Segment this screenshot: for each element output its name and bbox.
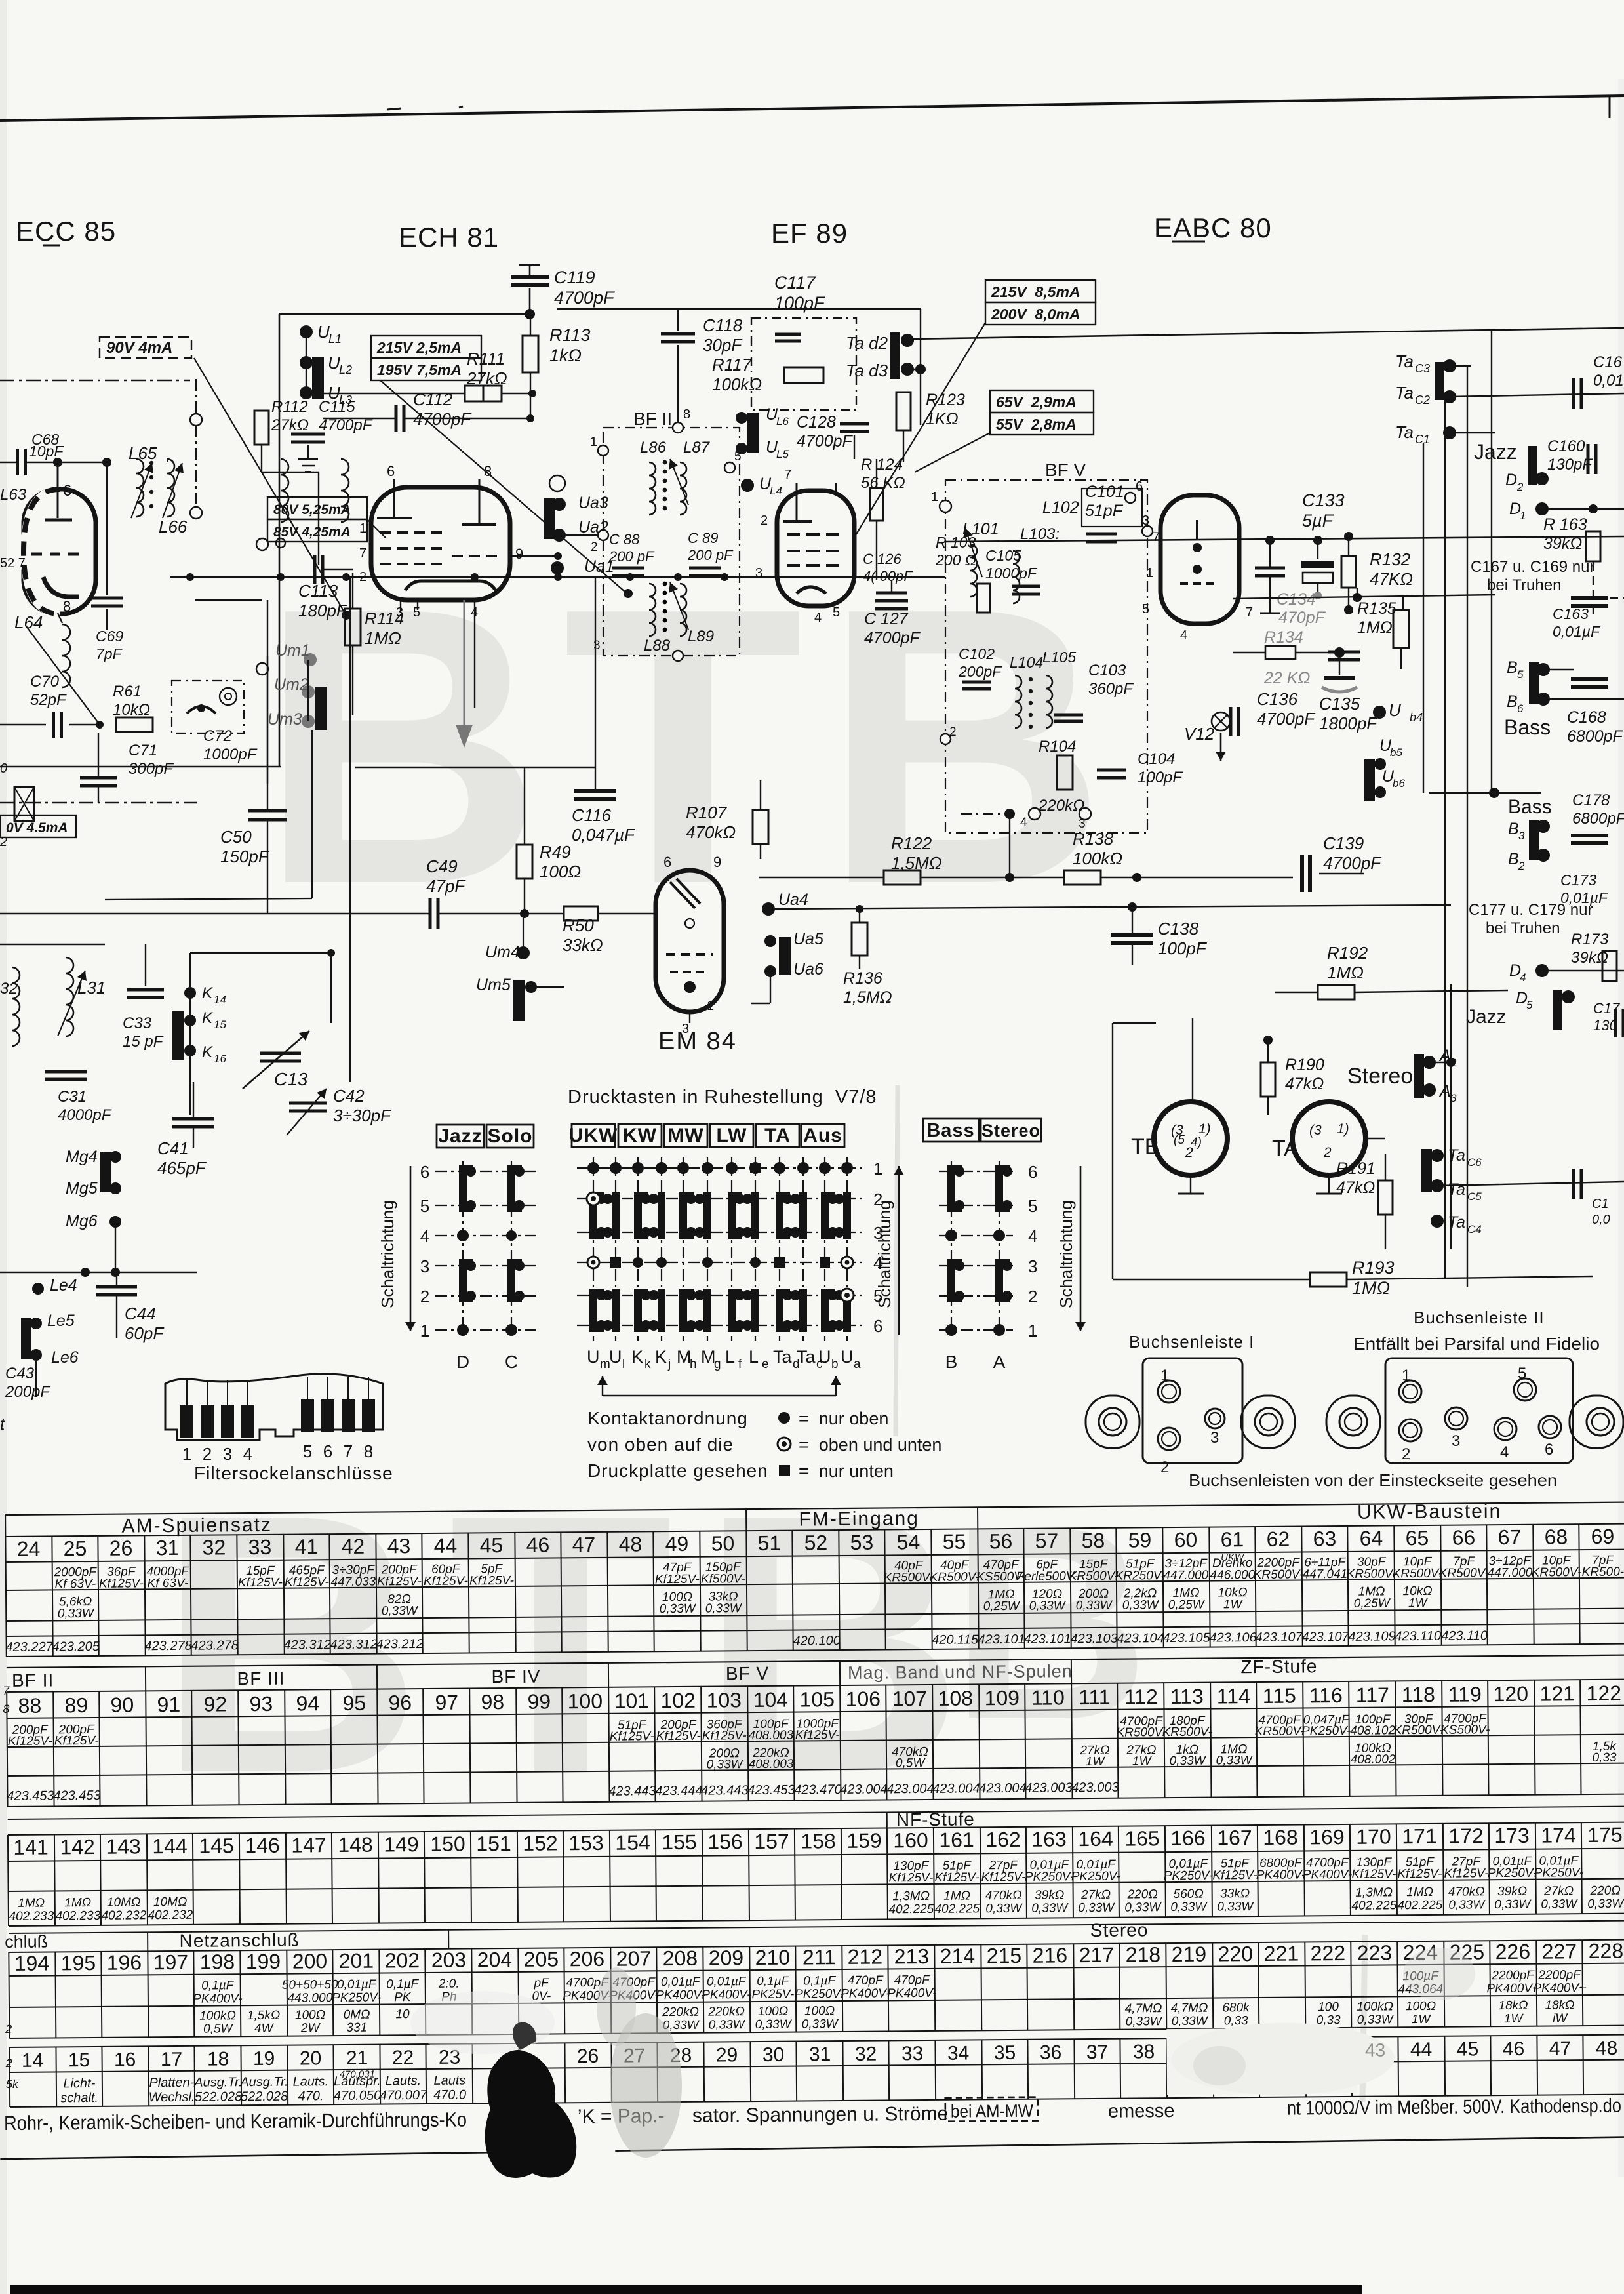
svg-text:0,33W: 0,33W	[1357, 2013, 1395, 2026]
svg-text:402.225: 402.225	[1351, 1899, 1396, 1913]
svg-text:PK250V-: PK250V-	[1025, 1870, 1075, 1884]
svg-text:Kf125V-: Kf125V-	[795, 1728, 840, 1742]
svg-text:0,33: 0,33	[1592, 1751, 1617, 1765]
svg-text:R50: R50	[563, 916, 594, 935]
svg-text:C 88: C 88	[609, 531, 640, 548]
svg-text:0,33W: 0,33W	[755, 2018, 793, 2032]
svg-text:g: g	[714, 1358, 721, 1371]
svg-text:208: 208	[663, 1946, 698, 1970]
svg-text:423.443: 423.443	[701, 1783, 748, 1798]
svg-text:680k: 680k	[1222, 2001, 1250, 2015]
svg-text:144: 144	[152, 1834, 188, 1858]
svg-text:220Ω: 220Ω	[1589, 1884, 1620, 1898]
svg-text:R190: R190	[1285, 1056, 1324, 1074]
svg-text:0,01µF: 0,01µF	[707, 1975, 747, 1988]
svg-text:470kΩ: 470kΩ	[686, 822, 736, 842]
svg-text:R136: R136	[843, 969, 882, 988]
svg-text:447.041: 447.041	[1302, 1567, 1347, 1582]
svg-text:470pF: 470pF	[1278, 609, 1326, 627]
svg-text:Solo: Solo	[488, 1125, 533, 1147]
svg-text:Kf125V-: Kf125V-	[1351, 1867, 1396, 1881]
svg-text:C2: C2	[1415, 393, 1430, 407]
svg-text:Um4: Um4	[485, 943, 520, 961]
svg-text:C139: C139	[1323, 834, 1364, 853]
svg-text:2: 2	[1518, 860, 1525, 872]
svg-text:217: 217	[1079, 1943, 1115, 1967]
svg-text:Netzanschluß: Netzanschluß	[179, 1929, 299, 1950]
svg-text:100Ω: 100Ω	[1406, 2000, 1436, 2013]
svg-text:6800pF: 6800pF	[1567, 727, 1624, 746]
svg-text:FM-Eingang: FM-Eingang	[799, 1508, 919, 1530]
svg-text:KS500V-: KS500V-	[1440, 1723, 1490, 1737]
svg-text:ZF-Stufe: ZF-Stufe	[1240, 1656, 1317, 1677]
svg-text:98: 98	[481, 1690, 504, 1714]
svg-text:b5: b5	[1390, 746, 1402, 759]
svg-text:K: K	[202, 984, 213, 1002]
svg-text:Licht-: Licht-	[63, 2076, 95, 2091]
svg-text:33kΩ: 33kΩ	[563, 935, 603, 955]
svg-text:Ua1: Ua1	[584, 557, 614, 576]
svg-text:215V 2,5mA: 215V 2,5mA	[376, 339, 462, 356]
svg-text:Kf125V-: Kf125V-	[1397, 1867, 1442, 1881]
svg-text:B: B	[1507, 693, 1518, 711]
svg-text:35: 35	[994, 2042, 1016, 2064]
svg-text:UKW: UKW	[569, 1125, 618, 1146]
svg-text:ECH 81: ECH 81	[399, 222, 499, 252]
svg-text:AM-Spuiensatz: AM-Spuiensatz	[121, 1514, 272, 1537]
svg-text:Bass: Bass	[1504, 715, 1551, 739]
svg-text:0,1µF: 0,1µF	[201, 1979, 235, 1992]
svg-text:36: 36	[1040, 2042, 1062, 2063]
svg-text:7: 7	[344, 1441, 353, 1461]
svg-text:PK400V-: PK400V-	[887, 1986, 937, 2001]
svg-text:100Ω: 100Ω	[758, 2005, 788, 2019]
svg-text:Ua5: Ua5	[793, 930, 823, 948]
svg-text:44: 44	[1410, 2039, 1433, 2061]
svg-text:50: 50	[711, 1531, 735, 1555]
svg-text:211: 211	[802, 1945, 836, 1969]
svg-text:2: 2	[5, 2022, 12, 2036]
svg-text:170: 170	[1356, 1824, 1391, 1848]
svg-text:0,33W: 0,33W	[1170, 1901, 1208, 1914]
svg-text:1: 1	[1520, 510, 1526, 522]
svg-text:PK250V-: PK250V-	[1071, 1870, 1121, 1884]
svg-text:46: 46	[526, 1533, 550, 1556]
svg-text:2: 2	[1516, 481, 1524, 493]
svg-text:6: 6	[1545, 1441, 1553, 1459]
svg-text:Kf125V-: Kf125V-	[54, 1734, 99, 1748]
svg-text:R111: R111	[467, 349, 505, 369]
svg-text:164: 164	[1078, 1827, 1113, 1851]
svg-text:212: 212	[848, 1945, 883, 1969]
svg-text:PK250V-: PK250V-	[1488, 1866, 1537, 1881]
svg-text:Kf125V-: Kf125V-	[1212, 1868, 1257, 1883]
svg-text:Kf125V-: Kf125V-	[99, 1577, 144, 1591]
svg-text:30pF: 30pF	[703, 335, 743, 355]
svg-text:C1: C1	[1592, 1197, 1609, 1211]
svg-text:22: 22	[392, 2047, 414, 2068]
svg-text:C3: C3	[1415, 362, 1430, 375]
svg-text:j: j	[667, 1358, 671, 1371]
svg-text:0: 0	[0, 761, 7, 776]
svg-text:Bass: Bass	[1508, 796, 1552, 818]
svg-text:MW: MW	[667, 1125, 703, 1146]
svg-text:2: 2	[591, 540, 598, 554]
svg-text:UKW-Baustein: UKW-Baustein	[1357, 1500, 1501, 1523]
svg-text:BF II: BF II	[633, 409, 672, 429]
svg-text:423.004: 423.004	[840, 1782, 887, 1797]
svg-text:402.233: 402.233	[9, 1909, 54, 1923]
svg-text:TB: TB	[1131, 1135, 1159, 1159]
svg-text:423.470: 423.470	[794, 1782, 841, 1798]
svg-text:159: 159	[846, 1829, 882, 1853]
svg-text:27kΩ: 27kΩ	[1543, 1884, 1574, 1898]
svg-text:423.004: 423.004	[932, 1781, 980, 1796]
svg-text:1,3MΩ: 1,3MΩ	[1355, 1885, 1393, 1899]
svg-text:Kf 63V-: Kf 63V-	[54, 1577, 96, 1591]
svg-text:447.033: 447.033	[330, 1575, 376, 1590]
svg-text:0,0: 0,0	[1592, 1213, 1610, 1227]
svg-text:402.225: 402.225	[934, 1902, 980, 1916]
svg-text:44: 44	[434, 1534, 458, 1558]
svg-text:5: 5	[303, 1441, 312, 1461]
svg-text:0,25W: 0,25W	[1354, 1596, 1391, 1610]
svg-text:200pF: 200pF	[958, 663, 1002, 680]
svg-text:154: 154	[615, 1830, 650, 1854]
svg-text:Ta: Ta	[1395, 422, 1414, 442]
svg-text:141: 141	[13, 1836, 49, 1859]
svg-text:C104: C104	[1138, 750, 1175, 768]
svg-text:6: 6	[387, 463, 395, 479]
svg-text:R123: R123	[926, 391, 965, 409]
svg-text:226: 226	[1495, 1940, 1531, 1963]
svg-text:Ta: Ta	[1448, 1180, 1465, 1199]
svg-text:Buchsenleisten von der Einstec: Buchsenleisten von der Einsteckseite ges…	[1189, 1470, 1557, 1490]
svg-text:KR500V-: KR500V-	[884, 1571, 934, 1585]
svg-text:Um2: Um2	[274, 675, 309, 694]
svg-text:L6: L6	[776, 415, 789, 428]
svg-text:pF: pF	[534, 1977, 550, 1990]
svg-text:1W: 1W	[1504, 2012, 1524, 2026]
svg-text:420.100: 420.100	[793, 1634, 840, 1649]
svg-text:522.028: 522.028	[195, 2089, 242, 2104]
svg-text:= oben und unten: = oben und unten	[799, 1435, 941, 1455]
svg-text:15: 15	[214, 1018, 226, 1031]
svg-text:C163: C163	[1553, 605, 1589, 622]
svg-text:38: 38	[1133, 2041, 1155, 2063]
svg-text:KR500V-: KR500V-	[1532, 1565, 1582, 1580]
svg-text:Ta d3: Ta d3	[846, 361, 888, 380]
svg-text:C117: C117	[774, 273, 816, 292]
svg-text:Ta d2: Ta d2	[846, 333, 888, 353]
svg-text:147: 147	[291, 1833, 327, 1857]
svg-text:a: a	[854, 1358, 861, 1371]
svg-text:100pF: 100pF	[1138, 769, 1183, 786]
svg-text:1W: 1W	[1223, 1598, 1244, 1611]
svg-text:nt 1000Ω/V im Meßber. 500V. Ka: nt 1000Ω/V im Meßber. 500V. Kathodensp.d…	[1287, 2095, 1621, 2120]
svg-text:49: 49	[665, 1532, 689, 1556]
svg-text:119: 119	[1448, 1682, 1482, 1706]
svg-text:TA: TA	[1272, 1136, 1299, 1161]
svg-text:27kΩ: 27kΩ	[1080, 1888, 1111, 1902]
svg-text:R135: R135	[1357, 599, 1396, 618]
svg-text:51pF: 51pF	[1085, 502, 1124, 520]
svg-text:100kΩ: 100kΩ	[1073, 849, 1122, 868]
svg-text:152: 152	[523, 1831, 558, 1855]
svg-text:21: 21	[346, 2047, 368, 2069]
svg-text:111: 111	[1079, 1685, 1111, 1709]
svg-text:60: 60	[1174, 1528, 1197, 1552]
svg-text:198: 198	[200, 1950, 235, 1973]
svg-text:KR500V-: KR500V-	[1347, 1567, 1397, 1581]
svg-text:1: 1	[1146, 566, 1153, 580]
svg-text:4000pF: 4000pF	[58, 1106, 112, 1124]
svg-text:C49: C49	[426, 856, 458, 876]
svg-text:56: 56	[989, 1529, 1013, 1553]
svg-text:47kΩ: 47kΩ	[1285, 1075, 1324, 1093]
svg-text:26: 26	[577, 2045, 599, 2067]
svg-text:470.007: 470.007	[380, 2088, 427, 2103]
svg-text:115: 115	[1263, 1684, 1296, 1708]
svg-text:C138: C138	[1158, 919, 1199, 938]
svg-text:200pF: 200pF	[5, 1383, 50, 1401]
svg-text:1MΩ: 1MΩ	[1406, 1885, 1433, 1899]
svg-text:65: 65	[1405, 1526, 1429, 1550]
svg-text:Buchsenleiste I: Buchsenleiste I	[1129, 1332, 1254, 1352]
svg-text:R113: R113	[549, 325, 591, 345]
svg-text:20: 20	[300, 2047, 322, 2069]
svg-text:A: A	[993, 1352, 1006, 1372]
svg-text:3: 3	[1028, 1257, 1037, 1276]
svg-text:Ausg.Tr.: Ausg.Tr.	[193, 2075, 243, 2090]
svg-text:C168: C168	[1567, 708, 1606, 727]
svg-text:Lauts: Lauts	[433, 2074, 465, 2088]
svg-text:R192: R192	[1327, 943, 1368, 963]
svg-text:47KΩ: 47KΩ	[1370, 569, 1413, 589]
svg-text:55V 2,8mA: 55V 2,8mA	[996, 416, 1077, 433]
svg-text:1: 1	[1160, 1367, 1169, 1384]
svg-text:C50: C50	[220, 827, 252, 847]
svg-text:85V 4,25mA: 85V 4,25mA	[273, 525, 351, 540]
svg-text:e: e	[762, 1358, 769, 1371]
svg-text:Rohr-, Keramik-Scheiben- und K: Rohr-, Keramik-Scheiben- und Keramik-Dur…	[4, 2108, 467, 2135]
svg-text:PK250V-: PK250V-	[332, 1991, 382, 2005]
svg-text:205: 205	[524, 1947, 559, 1971]
svg-text:120: 120	[1493, 1682, 1528, 1706]
svg-text:1MΩ: 1MΩ	[1327, 963, 1364, 982]
svg-text:33: 33	[901, 2043, 924, 2064]
svg-text:423.453: 423.453	[53, 1788, 100, 1803]
svg-text:C115: C115	[319, 398, 355, 416]
svg-text:EABC 80: EABC 80	[1154, 212, 1272, 243]
svg-text:47pF: 47pF	[426, 876, 466, 896]
svg-text:100kΩ: 100kΩ	[712, 374, 762, 394]
svg-text:Kf 63V-: Kf 63V-	[147, 1577, 188, 1590]
svg-text:53: 53	[850, 1531, 874, 1554]
svg-text:423.212: 423.212	[376, 1637, 423, 1652]
svg-text:200V 8,0mA: 200V 8,0mA	[991, 306, 1080, 323]
svg-text:4700pF: 4700pF	[1257, 709, 1316, 729]
svg-text:470.: 470.	[298, 2089, 323, 2103]
svg-text:2: 2	[203, 1444, 212, 1464]
svg-text:b: b	[831, 1358, 839, 1371]
svg-text:447.000: 447.000	[1487, 1566, 1532, 1580]
svg-text:KR500V-: KR500V-	[930, 1570, 980, 1584]
svg-text:46: 46	[1503, 2038, 1525, 2060]
svg-text:26: 26	[109, 1536, 133, 1560]
svg-text:Platten-: Platten-	[149, 2076, 194, 2091]
svg-text:213: 213	[894, 1944, 930, 1968]
svg-text:PK400V-: PK400V-	[1303, 1868, 1353, 1882]
svg-text:L88: L88	[644, 637, 671, 654]
svg-text:2: 2	[0, 835, 7, 849]
svg-text:C6: C6	[1467, 1156, 1482, 1169]
svg-text:59: 59	[1128, 1528, 1151, 1552]
svg-text:39kΩ: 39kΩ	[1035, 1888, 1064, 1902]
svg-text:Stereo: Stereo	[1347, 1064, 1413, 1089]
svg-text:32: 32	[0, 980, 18, 997]
svg-text:1kΩ: 1kΩ	[549, 346, 582, 365]
svg-text:8: 8	[683, 407, 690, 422]
svg-text:200: 200	[292, 1949, 328, 1973]
svg-text:90: 90	[110, 1693, 134, 1716]
svg-text:423.205: 423.205	[52, 1640, 100, 1655]
svg-text:6: 6	[663, 854, 671, 870]
svg-text:3: 3	[1518, 830, 1525, 842]
svg-text:C177 u. C179 nur: C177 u. C179 nur	[1469, 901, 1593, 919]
svg-text:Kf125V-: Kf125V-	[238, 1576, 283, 1590]
svg-text:443.000: 443.000	[287, 1991, 332, 2005]
svg-text:B: B	[1508, 850, 1519, 868]
svg-text:165: 165	[1124, 1826, 1160, 1850]
svg-text:Kf125V-: Kf125V-	[655, 1573, 700, 1587]
svg-text:R112: R112	[271, 398, 308, 416]
svg-text:Bass: Bass	[926, 1120, 974, 1141]
svg-text:201: 201	[339, 1949, 374, 1973]
svg-text:1: 1	[1402, 1367, 1410, 1384]
svg-text:Kf125V-: Kf125V-	[1444, 1866, 1488, 1881]
svg-text:402.232: 402.232	[101, 1908, 146, 1923]
svg-text:220kΩ: 220kΩ	[1038, 797, 1084, 815]
svg-text:Ta: Ta	[773, 1347, 793, 1367]
svg-text:C134: C134	[1277, 590, 1316, 609]
svg-text:2: 2	[761, 513, 768, 528]
svg-text:43: 43	[1365, 2040, 1385, 2060]
svg-text:Kf125V-: Kf125V-	[469, 1574, 514, 1588]
svg-text:106: 106	[845, 1687, 881, 1711]
svg-text:42: 42	[342, 1535, 365, 1558]
svg-text:PK: PK	[394, 1990, 412, 2004]
svg-text:KR500V-: KR500V-	[1439, 1566, 1490, 1580]
svg-text:bei Truhen: bei Truhen	[1486, 919, 1560, 937]
svg-text:423.278: 423.278	[144, 1639, 191, 1654]
svg-text:100: 100	[1318, 2000, 1339, 2014]
svg-text:114: 114	[1217, 1684, 1250, 1708]
svg-text:33kΩ: 33kΩ	[1220, 1887, 1250, 1901]
svg-text:PK400V~: PK400V~	[1486, 1982, 1539, 1996]
svg-text:Mg5: Mg5	[66, 1179, 98, 1197]
svg-text:0,1µF: 0,1µF	[386, 1977, 420, 1991]
svg-text:423.004: 423.004	[979, 1781, 1026, 1796]
svg-text:1MΩ: 1MΩ	[18, 1897, 45, 1910]
svg-text:5: 5	[1028, 1196, 1037, 1216]
svg-text:C70: C70	[30, 673, 60, 691]
svg-text:R 103: R 103	[936, 534, 976, 551]
svg-text:100Ω: 100Ω	[804, 2004, 835, 2018]
svg-text:0,33W: 0,33W	[1217, 1900, 1254, 1914]
svg-text:BF V: BF V	[726, 1663, 769, 1684]
svg-text:8: 8	[484, 463, 492, 479]
svg-text:L63: L63	[0, 486, 27, 504]
svg-text:0,33W: 0,33W	[1076, 1599, 1113, 1613]
svg-text:408.003: 408.003	[749, 1758, 794, 1772]
svg-text:L65: L65	[129, 443, 157, 463]
svg-text:195: 195	[61, 1951, 96, 1975]
svg-text:Kf125V-: Kf125V-	[656, 1729, 701, 1744]
svg-text:1800pF: 1800pF	[1319, 714, 1378, 733]
svg-text:470.0: 470.0	[433, 2088, 466, 2103]
svg-text:C 127: C 127	[864, 610, 909, 628]
svg-text:214: 214	[940, 1944, 976, 1967]
svg-text:0,047µF: 0,047µF	[572, 825, 636, 845]
svg-text:Kf125V-: Kf125V-	[377, 1575, 422, 1589]
svg-text:Le4: Le4	[50, 1276, 77, 1295]
svg-text:6: 6	[420, 1162, 429, 1182]
svg-text:Jazz: Jazz	[1466, 1006, 1507, 1028]
svg-text:1): 1)	[1198, 1121, 1211, 1137]
svg-text:PK400V-: PK400V-	[656, 1988, 705, 2003]
svg-text:215V 8,5mA: 215V 8,5mA	[991, 283, 1080, 300]
svg-text:L5: L5	[776, 448, 789, 460]
svg-text:C102: C102	[959, 645, 995, 662]
svg-text:1: 1	[420, 1321, 429, 1340]
svg-text:423.105: 423.105	[1162, 1631, 1210, 1646]
svg-text:100kΩ: 100kΩ	[199, 2009, 236, 2022]
svg-text:160: 160	[893, 1828, 928, 1852]
svg-text:2: 2	[5, 2057, 12, 2070]
svg-text:200 pF: 200 pF	[687, 547, 734, 563]
svg-text:5: 5	[833, 605, 840, 620]
svg-text:172: 172	[1448, 1824, 1484, 1847]
svg-text:Um5: Um5	[476, 976, 511, 994]
svg-text:32: 32	[855, 2043, 877, 2065]
svg-text:423.110: 423.110	[1441, 1628, 1488, 1643]
svg-text:18: 18	[207, 2048, 229, 2070]
svg-text:7: 7	[359, 546, 366, 561]
svg-text:K: K	[631, 1347, 643, 1367]
svg-text:2200pF: 2200pF	[1491, 1969, 1535, 1983]
svg-text:45: 45	[480, 1533, 504, 1557]
svg-text:64: 64	[1359, 1526, 1383, 1550]
svg-text:5: 5	[1518, 1365, 1526, 1382]
svg-text:1: 1	[359, 521, 366, 536]
svg-text:Kf125V-: Kf125V-	[702, 1729, 747, 1743]
svg-text:B: B	[1508, 820, 1519, 838]
svg-text:465pF: 465pF	[157, 1158, 207, 1178]
svg-text:Mag. Band und NF-Spulen: Mag. Band und NF-Spulen	[848, 1661, 1073, 1683]
svg-text:EM 84: EM 84	[658, 1028, 737, 1055]
svg-text:Le5: Le5	[47, 1312, 75, 1330]
svg-text:522.028: 522.028	[241, 2089, 288, 2104]
svg-text:4700pF: 4700pF	[797, 432, 854, 451]
svg-text:PK250V-: PK250V-	[1164, 1869, 1214, 1883]
svg-text:Kf125V-: Kf125V-	[8, 1734, 52, 1748]
svg-text:B: B	[945, 1352, 958, 1372]
svg-text:BF III: BF III	[237, 1668, 285, 1689]
svg-text:K: K	[655, 1347, 667, 1367]
svg-text:PK400V-: PK400V-	[1256, 1868, 1306, 1882]
svg-text:C1: C1	[1415, 433, 1430, 446]
